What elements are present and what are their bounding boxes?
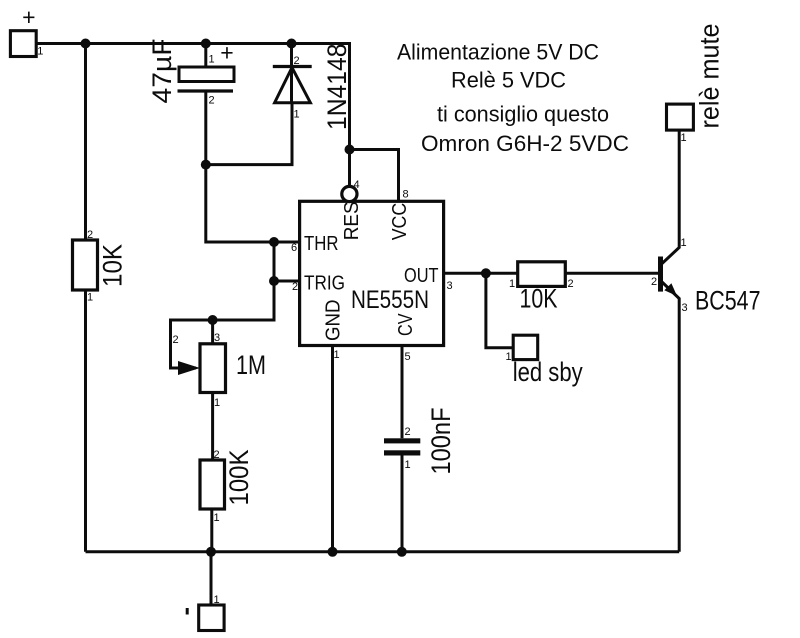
node junction top-left (81, 39, 91, 49)
svg-text:3: 3 (447, 280, 453, 292)
wire collector to relay (662, 130, 680, 264)
node junction THR (269, 237, 279, 247)
wire vcc branch (350, 150, 399, 202)
node junction reset/vcc (345, 145, 355, 155)
terminal - JP2 (187, 594, 224, 631)
svg-text:Omron G6H-2 5VDC: Omron G6H-2 5VDC (421, 131, 629, 156)
svg-text:BC547: BC547 (695, 286, 761, 316)
wire THR-TRIG-pot vertical (213, 242, 274, 344)
svg-text:8: 8 (403, 189, 409, 201)
svg-text:led sby: led sby (513, 357, 583, 387)
svg-text:1: 1 (334, 349, 340, 361)
svg-text:GND: GND (322, 300, 345, 342)
wire 47uF bottom (204, 93, 207, 165)
wire diode bottom to node (206, 103, 292, 165)
resistor R3 100K (200, 449, 254, 524)
svg-text:1: 1 (294, 109, 300, 121)
wire diode top (290, 44, 293, 103)
svg-text:CV: CV (394, 313, 417, 336)
svg-text:relè mute: relè mute (695, 24, 725, 129)
node junction pot top (208, 315, 218, 325)
svg-text:1N4148: 1N4148 (322, 44, 352, 131)
wire GND pin (331, 346, 334, 552)
svg-text:2: 2 (173, 334, 179, 346)
svg-text:RES: RES (340, 201, 363, 240)
svg-text:2: 2 (87, 229, 93, 241)
capacitor C1 47uF (147, 39, 234, 107)
node junction cap-diode bottom (201, 160, 211, 170)
svg-text:2: 2 (405, 426, 411, 438)
node junction TRIG (269, 276, 279, 286)
capacitor C2 100nF (384, 408, 456, 475)
svg-text:1: 1 (87, 292, 93, 304)
op-amp U1 NE555N body (291, 179, 453, 363)
svg-text:1: 1 (214, 397, 220, 409)
svg-text:100nF: 100nF (426, 408, 456, 475)
svg-text:1: 1 (214, 512, 220, 524)
svg-text:2: 2 (568, 278, 574, 290)
svg-text:1: 1 (405, 459, 411, 471)
svg-text:NE555N: NE555N (351, 286, 429, 314)
wire bottom rail (86, 550, 680, 553)
svg-text:2: 2 (651, 276, 657, 288)
wire CV pin to cap (401, 346, 404, 439)
svg-text:100K: 100K (224, 450, 254, 506)
svg-text:+: + (22, 4, 35, 30)
wire node to THR (206, 165, 300, 242)
transistor Q1 BC547 (651, 237, 761, 316)
wire minus terminal (210, 552, 213, 605)
svg-text:5: 5 (405, 351, 411, 363)
node junction diode top (287, 39, 297, 49)
svg-text:1: 1 (214, 594, 220, 606)
node junction rail minus (206, 547, 216, 557)
terminal led sby (506, 335, 584, 387)
svg-text:ti consiglio questo: ti consiglio questo (437, 102, 609, 127)
svg-text:1: 1 (506, 351, 512, 363)
wire pot to 100K (211, 393, 214, 461)
terminal rele mute (667, 24, 725, 145)
wire emitter to rail (662, 282, 680, 552)
wire OUT net (444, 272, 660, 275)
diode D1 1N4148 (273, 44, 352, 131)
svg-text:2: 2 (209, 94, 215, 106)
svg-text:2: 2 (214, 449, 220, 461)
svg-text:1: 1 (509, 278, 515, 290)
wire 47uF top (204, 44, 207, 68)
svg-text:1: 1 (209, 53, 215, 65)
svg-text:2: 2 (292, 281, 298, 293)
svg-text:6: 6 (291, 242, 297, 254)
svg-text:1: 1 (37, 45, 43, 57)
wire top rail (37, 44, 350, 187)
svg-text:10K: 10K (98, 244, 128, 287)
svg-text:2: 2 (294, 55, 300, 67)
node junction rail 100nF (397, 547, 407, 557)
resistor R4 10K (right) (509, 262, 574, 314)
wire TRIG stub (274, 280, 300, 283)
svg-text:VCC: VCC (388, 203, 411, 241)
node junction rail GND (328, 547, 338, 557)
wire 100K to rail (210, 509, 213, 552)
wire pot wiper (171, 320, 213, 368)
wire left rail (84, 44, 87, 552)
resistor R1 10K (left) (73, 229, 128, 304)
potentiometer R2 1M (173, 332, 267, 409)
node junction 47uF top (201, 39, 211, 49)
reset pin inverted circle (342, 186, 357, 201)
svg-text:OUT: OUT (404, 264, 439, 287)
svg-text:Relè 5 VDC: Relè 5 VDC (451, 68, 566, 93)
svg-text:THR: THR (304, 232, 339, 255)
node junction OUT (481, 268, 491, 278)
svg-text:10K: 10K (520, 284, 558, 314)
svg-text:1M: 1M (236, 350, 266, 380)
wire led branch (486, 273, 513, 348)
svg-text:1: 1 (681, 132, 687, 144)
svg-text:3: 3 (682, 302, 688, 314)
svg-text:TRIG: TRIG (304, 272, 345, 295)
svg-text:3: 3 (214, 332, 220, 344)
svg-text:Alimentazione 5V DC: Alimentazione 5V DC (397, 40, 599, 65)
wire 100nF to rail (401, 456, 404, 552)
svg-text:47µF: 47µF (147, 39, 177, 104)
svg-text:1: 1 (681, 237, 687, 249)
terminal + JP1 (10, 4, 43, 57)
svg-text:+: + (220, 40, 233, 66)
